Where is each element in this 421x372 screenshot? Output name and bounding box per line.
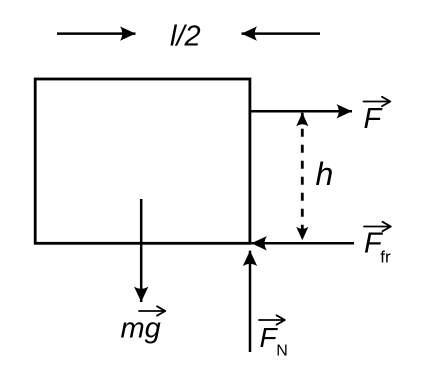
svg-text:l/2: l/2 xyxy=(170,21,201,53)
force F arrow xyxy=(249,110,352,113)
svg-text:N: N xyxy=(276,342,288,359)
vector arrow over F_fr xyxy=(364,222,391,231)
svg-text:fr: fr xyxy=(380,247,391,266)
svg-text:F: F xyxy=(364,103,384,135)
vector arrow over F xyxy=(364,97,391,106)
top-left arrow (points right) xyxy=(57,32,136,35)
normal force F_N arrow (points up) xyxy=(249,251,252,352)
svg-text:mg: mg xyxy=(121,313,161,345)
vector arrow over mg xyxy=(139,306,165,315)
dashed h dimension line xyxy=(301,113,304,241)
vector arrow over F_N xyxy=(259,315,285,324)
box (block) xyxy=(35,79,250,243)
svg-text:h: h xyxy=(316,156,334,192)
friction force F_fr arrow (points left) xyxy=(251,242,354,245)
top-right arrow (points left) xyxy=(242,32,321,35)
weight mg arrow (points down) xyxy=(140,199,143,302)
